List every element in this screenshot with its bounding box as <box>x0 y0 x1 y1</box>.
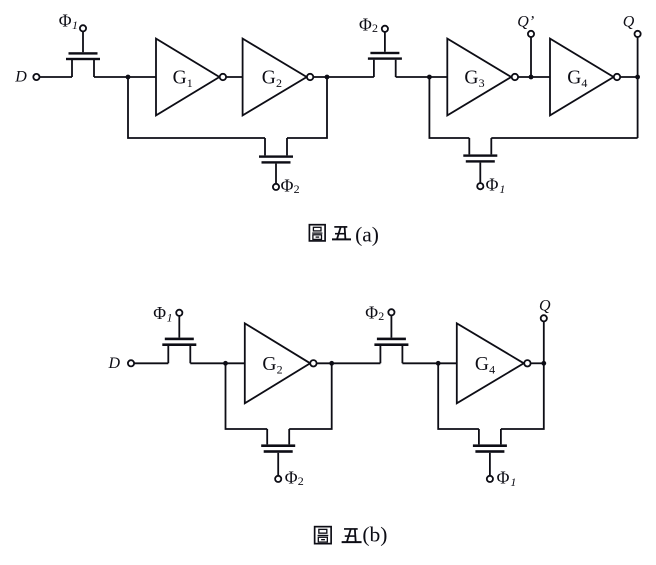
svg-text:G: G <box>262 68 276 89</box>
svg-text:Φ: Φ <box>497 468 510 488</box>
svg-text:D: D <box>14 69 27 86</box>
svg-text:1: 1 <box>72 18 78 32</box>
svg-text:2: 2 <box>298 474 304 488</box>
svg-text:Φ: Φ <box>365 302 378 322</box>
svg-text:1: 1 <box>499 182 505 196</box>
svg-text:4: 4 <box>489 362 495 376</box>
svg-text:G: G <box>567 68 581 89</box>
svg-text:G: G <box>262 354 276 375</box>
svg-text:(b): (b) <box>362 522 387 546</box>
svg-text:Φ: Φ <box>59 11 72 31</box>
svg-text:4: 4 <box>581 76 587 90</box>
svg-text:2: 2 <box>294 182 300 196</box>
svg-text:Q’: Q’ <box>517 14 534 31</box>
svg-text:G: G <box>173 68 187 89</box>
svg-text:2: 2 <box>372 21 378 35</box>
svg-text:2: 2 <box>276 76 282 90</box>
svg-text:Φ: Φ <box>285 468 298 488</box>
svg-text:Φ: Φ <box>486 175 499 195</box>
svg-text:G: G <box>475 354 489 375</box>
svg-text:Q: Q <box>623 14 635 31</box>
svg-text:(a): (a) <box>355 222 379 246</box>
svg-text:G: G <box>464 68 478 89</box>
svg-text:3: 3 <box>479 76 485 90</box>
svg-text:Φ: Φ <box>281 175 294 195</box>
svg-text:1: 1 <box>167 310 173 324</box>
svg-text:Φ: Φ <box>153 303 166 323</box>
svg-text:1: 1 <box>510 475 516 489</box>
svg-text:2: 2 <box>277 362 283 376</box>
svg-text:D: D <box>108 355 121 372</box>
svg-text:1: 1 <box>187 76 193 90</box>
svg-text:Φ: Φ <box>359 14 372 34</box>
svg-text:Q: Q <box>539 298 551 315</box>
svg-text:2: 2 <box>378 309 384 323</box>
